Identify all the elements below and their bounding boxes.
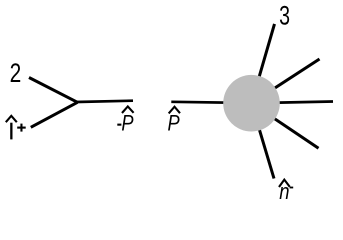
- wire lower-left leg of left vertex: [31, 102, 78, 127]
- wire upper-left leg of left vertex: [29, 78, 78, 103]
- wire incoming line to blob: [171, 102, 251, 103]
- wire lower-right outgoing line: [252, 103, 319, 148]
- wire horizontal right outgoing line: [252, 102, 334, 104]
- wire steep upper outgoing line: [252, 24, 275, 103]
- wire steep lower outgoing line: [252, 103, 275, 178]
- svg-text:P: P: [121, 111, 133, 136]
- svg-text:2: 2: [10, 58, 22, 88]
- blob (gray circle): [223, 75, 280, 132]
- svg-text:P: P: [168, 111, 180, 136]
- svg-text:3: 3: [279, 1, 290, 31]
- wire upper-right outgoing line: [252, 59, 320, 103]
- node label minus-P-hat: [117, 106, 134, 135]
- svg-text:n: n: [279, 179, 289, 204]
- node label P-hat: [168, 107, 181, 136]
- wire horizontal line of left vertex: [76, 101, 133, 102]
- node label n-hat-minus: [279, 179, 293, 204]
- node label 1-hat-plus: [6, 116, 26, 140]
